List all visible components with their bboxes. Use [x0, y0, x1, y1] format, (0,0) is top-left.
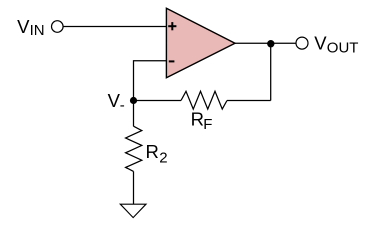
op-amp - input sign [169, 60, 175, 62]
svg-text:F: F [203, 116, 212, 133]
node V- junction [130, 97, 137, 104]
svg-text:OUT: OUT [327, 40, 359, 57]
ground [120, 204, 146, 217]
wire output junction down to feedback [270, 44, 272, 101]
wire VIN to op-amp + input [64, 26, 167, 28]
wire op-amp output to VOUT terminal [235, 42, 296, 44]
svg-text:V: V [17, 16, 30, 37]
wire R2 to ground [133, 171, 135, 204]
svg-text:R: R [191, 109, 204, 130]
output junction node [267, 40, 274, 47]
svg-text:2: 2 [159, 150, 167, 167]
input terminal VIN [52, 21, 64, 33]
wire node V- down to R2 [133, 101, 135, 127]
svg-text:V: V [314, 33, 327, 54]
svg-text:-: - [120, 97, 125, 114]
svg-text:V: V [108, 90, 121, 111]
output terminal VOUT [296, 37, 308, 49]
wire feedback right segment [227, 100, 271, 102]
wire op-amp minus input to node V- [134, 61, 167, 101]
svg-text:IN: IN [30, 22, 45, 39]
op-amp + input sign [168, 22, 176, 30]
resistor R2 [126, 126, 142, 171]
op-amp U1 [166, 8, 235, 78]
svg-text:R: R [146, 141, 159, 162]
resistor RF [181, 91, 227, 109]
wire node V- to RF [134, 100, 182, 102]
